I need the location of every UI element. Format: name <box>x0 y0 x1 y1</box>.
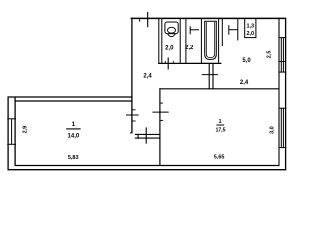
svg-text:2,5: 2,5 <box>267 51 273 59</box>
svg-text:1: 1 <box>218 119 221 125</box>
svg-text:2,0: 2,0 <box>165 46 174 52</box>
svg-text:17,5: 17,5 <box>216 127 226 133</box>
svg-text:2,4: 2,4 <box>143 74 152 80</box>
svg-text:5,0: 5,0 <box>242 58 251 64</box>
svg-text:2,0: 2,0 <box>246 31 254 37</box>
svg-text:14,0: 14,0 <box>68 133 80 139</box>
svg-text:2,4: 2,4 <box>240 80 249 86</box>
svg-text:3,0: 3,0 <box>270 126 276 134</box>
svg-text:5,83: 5,83 <box>68 155 79 161</box>
svg-text:2,2: 2,2 <box>185 45 194 51</box>
svg-text:1,3: 1,3 <box>246 24 254 30</box>
svg-text:5,65: 5,65 <box>214 154 225 160</box>
svg-text:2,9: 2,9 <box>23 126 29 134</box>
